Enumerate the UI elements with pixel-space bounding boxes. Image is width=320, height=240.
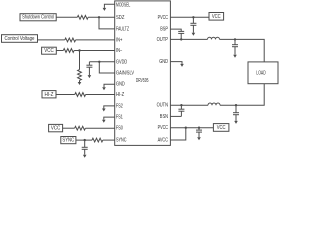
wire resistor R6 to FS0 pin [85,127,114,129]
svg-text:Control Voltage: Control Voltage [5,36,35,42]
node OUTN filter junction [235,104,237,106]
label SYNC source [62,138,74,144]
svg-text:PVCC: PVCC [158,15,169,21]
wire Shutdown Control box to resistor R1 [56,16,77,18]
box HI-Z [42,91,56,98]
wire BSN pin to capacitor C6 [170,115,181,117]
pin label MODSEL [116,2,130,8]
wire GND right pin to ground arrow [170,62,182,64]
pin label IN+ [116,37,122,43]
wire GVDD pin to capacitor C1 [89,61,114,63]
resistor R4 (divider bottom, vertical) [78,70,82,81]
box Control Voltage [2,35,38,43]
pin label BSP [160,27,168,33]
pin label GND left [116,82,125,88]
pin label FS0 [116,126,123,132]
node GVDD junction [98,61,100,63]
svg-text:BSN: BSN [160,114,168,120]
svg-text:FAULTZ: FAULTZ [116,26,129,32]
svg-text:AVCC: AVCC [158,138,169,144]
pin label BSN [160,114,168,120]
node OUTN bootstrap junction [180,104,182,106]
ground arrow below R4 [78,82,82,85]
svg-text:DRV595: DRV595 [136,78,149,84]
svg-text:FS1: FS1 [116,115,123,121]
pin label OUTN [157,103,169,109]
wire resistor R4 to ground [79,80,81,82]
svg-text:HI-Z: HI-Z [116,92,124,98]
wire resistor R2 to IN+ pin [76,39,115,41]
box SYNC source [61,137,76,144]
op-amp U1 DRV595 IC body [115,1,171,146]
capacitor C7 (OUTN filter) [233,105,239,121]
svg-text:LOAD: LOAD [256,70,266,76]
wire VCC box to resistor R6 [63,127,75,129]
resistor R5 (HI-Z series) [75,93,86,97]
node IN- junction [78,49,80,51]
capacitor C5 (OUTP filter) [232,39,238,54]
svg-text:GND: GND [116,82,125,88]
pin label GND right [159,59,168,65]
pin label GVDD [116,59,127,65]
wire OUTP pin to inductor L1 [170,38,207,40]
capacitor C6 (BSN bootstrap) [178,105,184,116]
wire IN- junction down to resistor R4 [79,51,81,70]
wire FS2 pin to ground arrow [104,106,115,109]
label HI-Z [45,92,54,98]
pin label AVCC [158,138,169,144]
svg-text:FS2: FS2 [116,103,123,109]
pin label FS1 [116,115,123,121]
wire inductor L1 to LOAD corner [220,39,265,62]
pin label IN- [116,48,122,54]
resistor R6 (FS0 pull-up) [75,126,86,130]
ground arrow on MODSEL [103,8,107,11]
box VCC (top supply) [209,13,224,21]
capacitor C1 (GVDD decoupling) [86,62,92,75]
wire BSP pin to capacitor C4 [170,29,181,31]
svg-text:Shutdown Control: Shutdown Control [22,15,54,21]
svg-text:FS0: FS0 [116,126,123,132]
wire FS1 pin to ground arrow [104,117,115,120]
inductor L2 (OUTN filter) [208,103,220,105]
wire Control Voltage box to resistor R2 [38,39,65,41]
pin label FS2 [116,103,123,109]
ground arrow below C8 [197,137,201,140]
pin label OUTP [157,37,169,43]
label Shutdown Control [22,15,54,21]
pin label SYNC [116,138,127,144]
node BSP cap to OUTP junction [180,38,182,40]
pin label SDZ [116,15,124,21]
box VCC (bottom supply) [213,124,229,132]
label VCC (bottom supply) [217,125,226,131]
svg-text:VCC: VCC [44,48,54,54]
wire inductor L2 to LOAD corner [220,84,264,106]
ground arrow below C1 [88,75,92,78]
ground arrow below C3 [192,33,196,36]
ground arrow on FS2 [102,109,106,112]
node PVCC/AVCC tie junction [185,127,187,129]
svg-text:GVDD: GVDD [116,59,127,65]
ground arrow below C5 [233,55,237,58]
box Shutdown Control [20,14,56,21]
label Control Voltage [5,36,35,42]
svg-text:VCC: VCC [212,14,221,20]
wire HI-Z box to resistor R5 [56,94,75,96]
node SDZ junction [98,16,100,18]
pin label PVCC top right [158,15,169,21]
node PVCC top junction [192,16,194,18]
wire resistor R1 to SDZ pin [88,16,115,18]
ground arrow on FS1 [102,120,106,123]
capacitor C8 (PVCC bottom decoupling) [196,128,202,137]
svg-text:MODSEL: MODSEL [116,2,130,8]
resistor R1 (SDZ pull) [77,15,88,19]
ground arrow on right GND [180,64,184,67]
capacitor C4 (BSP bootstrap) [178,31,184,39]
box LOAD [248,62,278,84]
node OUTP filter junction [234,38,236,40]
inductor L1 (OUTP filter) [208,37,220,39]
ground arrow below C7 [234,121,238,124]
resistor R2 (IN+ series) [65,38,76,42]
resistor R3 (divider top) [63,49,74,53]
wire AVCC pin to PVCC junction [170,128,185,140]
wire PVCC top pin to VCC box [170,16,209,18]
svg-text:HI-Z: HI-Z [45,92,54,98]
pin label HI-Z [116,92,124,98]
wire GVDD junction to GAIN/SLV pin [99,62,114,73]
node PVCC bottom cap junction [198,127,200,129]
svg-text:GND: GND [159,59,168,65]
capacitor C2 (SYNC filter) [82,140,88,155]
label VCC (FS0 pull-up) [51,126,61,132]
wire SDZ junction down to FAULTZ row [99,17,115,29]
wire resistor R3 to IN- pin [74,50,115,52]
pin label GAIN/SLV [116,71,134,77]
ground arrow below C2 [83,155,87,158]
ground arrow on left GND [102,87,106,90]
wire PVCC bottom pin to VCC box [170,127,213,129]
wire resistor R5 to HI-Z pin [86,94,115,96]
svg-text:SYNC: SYNC [116,138,127,144]
wire VCC box to resistor R3 [56,50,63,52]
svg-text:SYNC: SYNC [62,138,74,144]
label LOAD [256,70,266,76]
label VCC (IN- reference) [44,48,54,54]
label VCC (top supply) [212,14,221,20]
wire MODSEL pin to ground arrow [104,4,114,8]
svg-text:VCC: VCC [51,126,61,132]
resistor R7 (SYNC series) [92,138,103,142]
capacitor C3 (PVCC top decoupling) [190,17,196,33]
box VCC (FS0 pull-up) [49,124,63,131]
svg-text:OUTN: OUTN [157,103,169,109]
pin label PVCC bottom right [158,125,169,131]
svg-text:BSP: BSP [160,27,168,33]
svg-text:GAIN/SLV: GAIN/SLV [116,71,134,77]
box VCC (IN- reference) [42,47,57,54]
svg-text:PVCC: PVCC [158,125,169,131]
U1 part number label DRV595 [136,78,149,84]
wire OUTN pin to inductor L2 [170,104,208,106]
svg-text:SDZ: SDZ [116,15,124,21]
svg-text:IN+: IN+ [116,37,122,43]
node SYNC junction [84,139,86,141]
svg-text:VCC: VCC [217,125,226,131]
pin label FAULTZ [116,26,129,32]
svg-text:IN−: IN− [116,48,122,54]
wire GND pin left to ground arrow [104,84,115,87]
svg-text:OUTP: OUTP [157,37,169,43]
wire resistor R7 to SYNC pin [103,139,115,141]
wire SYNC box to resistor R7 [76,139,92,141]
